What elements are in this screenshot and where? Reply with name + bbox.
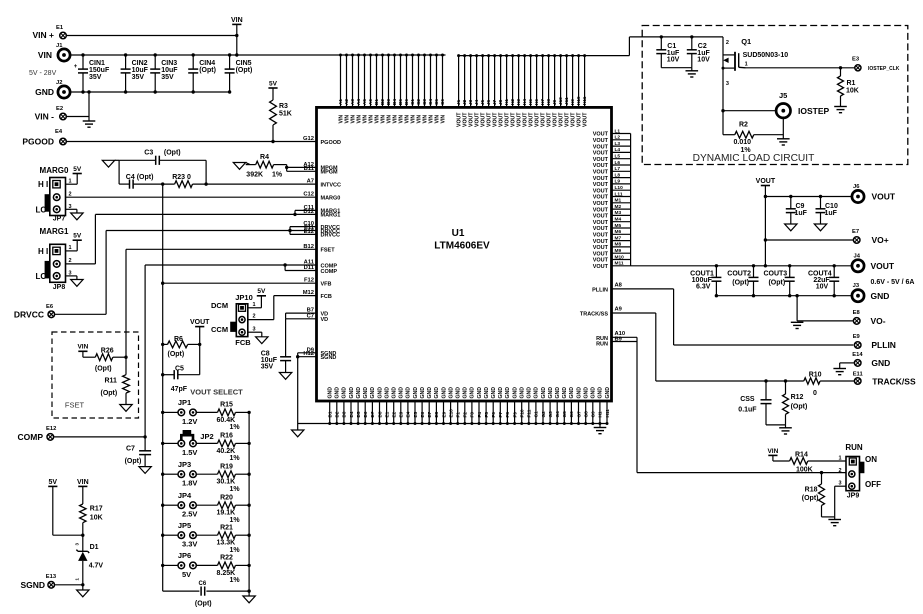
terminal E13 (SGND): [48, 582, 55, 589]
wire CSS/R12 ground: [766, 424, 786, 426]
wire PLLIN to E9: [673, 289, 675, 345]
svg-text:K8: K8: [546, 99, 551, 105]
svg-text:E8: E8: [434, 411, 439, 417]
ground (input): [83, 120, 96, 122]
svg-text:JP2: JP2: [200, 432, 213, 441]
svg-text:G8: G8: [584, 411, 589, 418]
svg-text:GND: GND: [335, 387, 341, 399]
svg-text:G2: G2: [541, 411, 546, 418]
svg-text:PGOOD: PGOOD: [22, 137, 54, 147]
svg-text:VOUT: VOUT: [593, 207, 609, 213]
svg-text:R22: R22: [220, 555, 233, 562]
svg-text:0.6V - 5V / 6A: 0.6V - 5V / 6A: [871, 279, 915, 286]
svg-text:VOUT: VOUT: [593, 233, 609, 239]
svg-text:D11: D11: [304, 265, 315, 271]
svg-text:C5: C5: [434, 99, 439, 105]
U1 pin RUN (A10,B9): [612, 336, 638, 338]
svg-text:(Opt): (Opt): [199, 67, 216, 74]
svg-text:GND: GND: [576, 387, 582, 399]
svg-text:GND: GND: [356, 387, 362, 399]
svg-text:GND: GND: [477, 387, 483, 399]
svg-text:LO: LO: [36, 272, 47, 281]
capacitor CSS 0.1uF: [764, 379, 767, 382]
ground (JP10 pin3): [248, 331, 262, 333]
ground (CSS/R12): [779, 427, 792, 429]
svg-text:5V - 28V: 5V - 28V: [29, 70, 57, 77]
banana jack J1 (VIN): [58, 49, 70, 61]
wire SGND drop to ground bus: [297, 357, 299, 424]
wire TRACK/SS to E11: [655, 313, 657, 381]
svg-text:R2: R2: [739, 122, 748, 129]
capacitor C3 (Opt): [119, 159, 156, 161]
svg-text:E8: E8: [853, 310, 861, 316]
svg-text:J8: J8: [498, 99, 503, 105]
svg-text:VIN: VIN: [77, 344, 88, 351]
svg-text:F2: F2: [463, 412, 468, 418]
resistor R4 392K 1%: [246, 164, 256, 166]
svg-text:E12: E12: [304, 229, 314, 235]
capacitor C2 1uF 10V: [690, 35, 693, 38]
svg-text:VO-: VO-: [871, 316, 886, 326]
svg-text:VOUT: VOUT: [593, 258, 609, 264]
svg-text:R21: R21: [220, 524, 233, 531]
svg-text:MARG0: MARG0: [321, 196, 341, 202]
svg-text:GND: GND: [498, 387, 504, 399]
svg-text:VIN: VIN: [767, 448, 778, 455]
svg-text:GND: GND: [512, 387, 518, 399]
svg-text:PGOOD: PGOOD: [321, 140, 342, 146]
svg-text:GND: GND: [520, 387, 526, 399]
svg-text:GND: GND: [491, 387, 497, 399]
svg-text:FSET: FSET: [65, 401, 85, 410]
svg-text:M5: M5: [615, 223, 622, 229]
wire VD bracket: [285, 313, 287, 319]
svg-text:10V: 10V: [697, 57, 710, 64]
wire C3 loop verticals: [118, 160, 120, 184]
capacitor CIN5: [229, 55, 231, 69]
wire feedback right rail: [248, 412, 250, 596]
svg-text:A3: A3: [350, 99, 355, 105]
svg-text:D5: D5: [356, 411, 361, 417]
terminal E9 (PLLIN): [854, 342, 861, 349]
svg-text:1: 1: [69, 245, 72, 251]
svg-text:JP1: JP1: [178, 398, 191, 407]
capacitor C9 1uF: [789, 195, 792, 198]
svg-text:5V: 5V: [257, 288, 266, 295]
svg-text:E2: E2: [392, 411, 397, 417]
svg-text:F1: F1: [456, 412, 461, 418]
svg-text:VIN: VIN: [231, 17, 243, 24]
jumper JP3 / resistor R19 30.1K 1%: [161, 473, 164, 476]
svg-text:J1: J1: [456, 99, 461, 105]
ground (bus right): [599, 424, 601, 428]
svg-text:C1: C1: [667, 43, 676, 50]
svg-text:(Opt): (Opt): [101, 390, 118, 397]
svg-text:U1: U1: [452, 228, 465, 239]
svg-text:60.4K: 60.4K: [217, 417, 236, 424]
svg-text:K6: K6: [534, 99, 539, 105]
svg-text:1%: 1%: [272, 172, 283, 179]
svg-text:L8: L8: [615, 172, 621, 178]
svg-text:GND: GND: [534, 387, 540, 399]
U1 top VIN pins: [340, 55, 342, 107]
wire PGOOD to U1 pin G12: [66, 141, 316, 143]
svg-text:J4: J4: [854, 254, 861, 260]
svg-text:GND: GND: [456, 387, 462, 399]
svg-text:K3: K3: [516, 99, 521, 105]
svg-text:VIN -: VIN -: [35, 112, 55, 122]
svg-text:GND: GND: [349, 387, 355, 399]
svg-text:A2: A2: [344, 99, 349, 105]
svg-text:GND: GND: [591, 387, 597, 399]
svg-text:COUT2: COUT2: [727, 271, 751, 278]
wire SGND bracket: [298, 352, 317, 354]
wire Q1 gate to E3: [746, 67, 855, 69]
svg-text:G5: G5: [562, 411, 567, 418]
ground (R1): [834, 106, 847, 108]
svg-text:C2: C2: [416, 99, 421, 105]
svg-text:13.3K: 13.3K: [217, 540, 236, 547]
svg-text:B9: B9: [615, 337, 623, 343]
svg-text:GND: GND: [427, 387, 433, 399]
wire E8 line: [795, 294, 798, 297]
svg-text:H12: H12: [303, 351, 314, 357]
svg-text:SGND: SGND: [20, 580, 45, 590]
terminal E8 (VO-): [853, 318, 860, 325]
svg-text:(Opt): (Opt): [236, 67, 253, 74]
power rail 5V (R3): [268, 87, 277, 89]
svg-text:E1: E1: [56, 25, 64, 31]
junction divider: [81, 534, 84, 537]
svg-text:GND: GND: [505, 387, 511, 399]
svg-text:47pF: 47pF: [171, 386, 188, 393]
resistor R14 100K: [790, 458, 808, 465]
svg-text:VOUT: VOUT: [593, 220, 609, 226]
svg-text:1%: 1%: [230, 517, 241, 524]
jumper JP2 / resistor R16 40.2K 1%: [161, 442, 164, 445]
wire VIN bus: [70, 54, 445, 56]
power rail VOUT (feedback): [195, 326, 204, 328]
svg-text:H I: H I: [38, 247, 48, 256]
svg-text:TRACK/SS: TRACK/SS: [872, 376, 916, 386]
svg-text:1uF: 1uF: [825, 210, 838, 217]
wire E13 to D1: [55, 584, 83, 586]
svg-text:VOUT: VOUT: [593, 226, 609, 232]
svg-text:GND: GND: [342, 387, 348, 399]
svg-text:40.2K: 40.2K: [217, 448, 236, 455]
svg-text:CIN4: CIN4: [199, 60, 215, 67]
svg-text:10K: 10K: [846, 88, 859, 95]
svg-text:JP6: JP6: [178, 551, 191, 560]
svg-text:GND: GND: [448, 387, 454, 399]
svg-text:0: 0: [813, 390, 817, 397]
wire MARG1 bracket: [294, 210, 296, 214]
svg-text:E7: E7: [427, 411, 432, 417]
svg-text:E3: E3: [852, 57, 860, 63]
svg-text:RUN: RUN: [845, 443, 863, 452]
svg-text:10V: 10V: [667, 57, 680, 64]
svg-text:19.1K: 19.1K: [217, 510, 236, 517]
junction C4/R23 to feedback rail: [161, 182, 164, 185]
svg-text:K11: K11: [582, 96, 587, 105]
U1 pin TRACK/SS (A9): [612, 312, 656, 314]
svg-text:L10: L10: [615, 185, 624, 191]
svg-text:1.5V: 1.5V: [182, 448, 197, 457]
power rail 5V (JP10): [257, 295, 266, 297]
svg-text:C6: C6: [440, 99, 445, 105]
ground (JP9): [828, 519, 841, 521]
svg-text:VOUT: VOUT: [593, 239, 609, 245]
svg-text:J2: J2: [462, 99, 467, 105]
svg-text:VOUT: VOUT: [593, 182, 609, 188]
svg-text:VIN +: VIN +: [33, 30, 55, 40]
svg-text:VOUT: VOUT: [593, 151, 609, 157]
svg-text:L2: L2: [615, 135, 621, 141]
capacitor CIN3: [154, 55, 156, 69]
resistor R17 10K: [82, 486, 84, 504]
svg-text:SUD50N03-10: SUD50N03-10: [743, 52, 789, 59]
svg-text:MARG1: MARG1: [40, 227, 69, 236]
svg-text:L6: L6: [615, 160, 621, 166]
ground (COUT bus): [791, 321, 804, 323]
svg-text:GND: GND: [541, 387, 547, 399]
capacitor C1 1uF 10V: [660, 35, 663, 38]
svg-text:JP9: JP9: [847, 493, 860, 500]
svg-text:G3: G3: [548, 411, 553, 418]
svg-text:J4: J4: [474, 99, 479, 105]
power rail VIN (R17): [78, 485, 87, 487]
zener diode D1 4.7V: [82, 535, 84, 551]
svg-text:392K: 392K: [246, 172, 263, 179]
jumper JP5 / resistor R21 13.3K 1%: [161, 534, 164, 537]
power rail 5V (D1): [48, 485, 57, 487]
svg-text:VOUT: VOUT: [593, 176, 609, 182]
svg-text:R14: R14: [795, 451, 808, 458]
svg-text:R4: R4: [260, 154, 269, 161]
svg-text:E4: E4: [406, 411, 411, 417]
svg-text:A6: A6: [368, 99, 373, 105]
svg-text:GND: GND: [548, 387, 554, 399]
svg-text:(Opt): (Opt): [164, 150, 181, 157]
svg-text:E1: E1: [384, 411, 389, 417]
power rail VIN (R14): [768, 454, 777, 456]
svg-text:VOUT: VOUT: [593, 138, 609, 144]
capacitor COUT3: [788, 264, 791, 267]
svg-text:E2: E2: [56, 106, 63, 112]
svg-text:CSS: CSS: [740, 396, 755, 403]
svg-text:VOUT: VOUT: [593, 144, 609, 150]
ground (JP8 pin3): [66, 275, 77, 277]
terminal E7 (VO+): [853, 237, 860, 244]
svg-text:1%: 1%: [741, 147, 752, 154]
svg-text:K10: K10: [576, 96, 581, 105]
svg-text:A8: A8: [615, 283, 623, 289]
svg-text:1: 1: [253, 302, 256, 308]
svg-text:L5: L5: [615, 154, 621, 160]
svg-text:1.8V: 1.8V: [182, 479, 197, 488]
terminal E14 (GND): [854, 360, 861, 367]
power rail VIN (FSET): [78, 350, 87, 352]
svg-text:B1: B1: [374, 99, 379, 105]
svg-text:IOSTEP_CLK: IOSTEP_CLK: [868, 66, 900, 72]
svg-text:(Opt): (Opt): [168, 351, 185, 358]
svg-text:L7: L7: [615, 166, 621, 172]
svg-text:5V: 5V: [182, 570, 191, 579]
svg-text:1%: 1%: [230, 455, 241, 462]
capacitor COUT2: [752, 264, 755, 267]
svg-text:E14: E14: [852, 352, 863, 358]
svg-text:GND: GND: [406, 387, 412, 399]
svg-text:VOUT: VOUT: [593, 201, 609, 207]
svg-text:10uF: 10uF: [161, 67, 178, 74]
svg-text:K7: K7: [540, 99, 545, 105]
svg-text:35V: 35V: [132, 74, 145, 81]
svg-text:4.7V: 4.7V: [89, 563, 104, 570]
svg-text:1%: 1%: [230, 486, 241, 493]
wire E2 to ground drop: [66, 116, 89, 118]
svg-text:J3: J3: [853, 283, 860, 289]
terminal E12 (COMP): [47, 434, 54, 441]
svg-text:10uF: 10uF: [132, 67, 149, 74]
svg-text:(Opt): (Opt): [768, 280, 785, 287]
svg-text:10V: 10V: [816, 284, 829, 291]
ground (R11): [120, 405, 132, 412]
U1 pin PLLIN (A8): [612, 288, 674, 290]
svg-text:M1: M1: [615, 198, 622, 204]
svg-text:OFF: OFF: [865, 480, 881, 489]
svg-text:+: +: [74, 64, 78, 70]
svg-text:FSET: FSET: [321, 248, 336, 254]
svg-text:G12: G12: [303, 136, 314, 142]
svg-text:E9: E9: [853, 334, 861, 340]
power rail VIN (top): [232, 23, 241, 25]
svg-text:R10: R10: [809, 371, 822, 378]
svg-text:C2: C2: [698, 43, 707, 50]
svg-text:1%: 1%: [230, 547, 241, 554]
svg-text:DCM: DCM: [211, 301, 228, 310]
svg-text:35V: 35V: [161, 74, 174, 81]
wire COUT ground bus: [716, 295, 851, 297]
svg-text:JP7: JP7: [53, 216, 66, 223]
svg-text:Q1: Q1: [741, 37, 751, 46]
ground (JP7 pin3): [66, 208, 77, 210]
svg-text:GND: GND: [569, 387, 575, 399]
svg-text:35V: 35V: [261, 364, 274, 371]
resistor R23 0: [175, 181, 193, 188]
svg-text:F4: F4: [477, 412, 482, 418]
svg-text:CIN5: CIN5: [236, 60, 252, 67]
ground (R4): [233, 163, 245, 170]
ground (C8): [279, 373, 291, 380]
resistor R6 (Opt): [161, 343, 164, 346]
svg-text:(Opt): (Opt): [802, 495, 819, 502]
svg-text:GND: GND: [555, 387, 561, 399]
power rail 5V (JP7): [73, 173, 82, 175]
svg-text:C5: C5: [175, 366, 184, 373]
svg-text:2.5V: 2.5V: [182, 510, 197, 519]
svg-text:GND: GND: [463, 387, 469, 399]
svg-text:E4: E4: [55, 129, 63, 135]
svg-text:D6: D6: [363, 411, 368, 417]
svg-text:G6: G6: [569, 411, 574, 418]
svg-text:LO: LO: [36, 206, 47, 215]
jumper JP1 / resistor R15 60.4K 1%: [161, 411, 164, 414]
svg-text:VOUT: VOUT: [190, 319, 210, 326]
svg-text:J5: J5: [480, 99, 485, 105]
svg-text:E5: E5: [413, 411, 418, 417]
svg-text:B12: B12: [303, 244, 314, 250]
svg-text:PLLIN: PLLIN: [592, 288, 608, 294]
resistor R26 (Opt): [95, 354, 113, 361]
svg-text:6.3V: 6.3V: [696, 284, 711, 291]
wire DRVCC to E6: [106, 230, 290, 232]
svg-text:VFB: VFB: [321, 282, 332, 288]
svg-text:VIN: VIN: [77, 479, 89, 486]
resistor R12 (Opt): [784, 379, 787, 382]
svg-text:D1: D1: [90, 544, 99, 551]
wire E1 to VIN rail: [66, 35, 237, 37]
svg-text:VOUT: VOUT: [593, 163, 609, 169]
wire VOUT ladder bus: [630, 134, 632, 266]
svg-text:IOSTEP: IOSTEP: [798, 106, 830, 116]
svg-text:J2: J2: [56, 80, 62, 86]
svg-text:J11: J11: [564, 97, 569, 105]
wire MPGM bracket: [286, 165, 288, 172]
ground (bus left): [297, 424, 299, 431]
svg-text:MPGM: MPGM: [321, 170, 339, 176]
svg-text:E6: E6: [420, 411, 425, 417]
svg-text:M7: M7: [615, 235, 622, 241]
capacitor CIN1: [82, 55, 84, 69]
wire feedback bottom rail: [163, 590, 200, 592]
wire DRVCC bracket: [289, 227, 291, 235]
svg-text:0.1uF: 0.1uF: [738, 406, 757, 413]
wire VOUT bus to J4: [631, 265, 852, 267]
svg-text:J6: J6: [486, 99, 491, 105]
svg-text:R6: R6: [174, 336, 183, 343]
svg-text:D7: D7: [370, 411, 375, 417]
svg-text:VOUT: VOUT: [593, 214, 609, 220]
connector J5 (IOSTEP): [776, 104, 790, 118]
svg-text:A1: A1: [338, 99, 343, 105]
svg-text:GND: GND: [470, 387, 476, 399]
wire COMP bracket: [284, 265, 286, 271]
svg-text:(Opt): (Opt): [791, 404, 808, 411]
svg-text:1: 1: [838, 456, 841, 462]
banana jack J2 (GND): [58, 86, 70, 98]
svg-text:D12: D12: [303, 209, 314, 215]
dynamic load dashed box: [642, 26, 908, 165]
svg-text:MARG1: MARG1: [321, 213, 341, 219]
capacitor CIN4: [192, 55, 194, 69]
svg-text:E9: E9: [441, 411, 446, 417]
svg-text:150uF: 150uF: [89, 67, 110, 74]
svg-text:1: 1: [745, 62, 748, 68]
ground (C10): [814, 224, 826, 231]
wire JP8 pin2 to U1 MARG1: [66, 263, 96, 265]
svg-text:GND: GND: [605, 387, 611, 399]
svg-text:(Opt): (Opt): [732, 280, 749, 287]
svg-text:R3: R3: [279, 103, 288, 110]
svg-text:1.2V: 1.2V: [182, 417, 197, 426]
svg-text:5V: 5V: [73, 166, 82, 173]
svg-text:B4: B4: [392, 99, 397, 105]
svg-text:FCB: FCB: [235, 338, 251, 347]
capacitor CIN2: [125, 55, 127, 69]
svg-text:M4: M4: [615, 217, 622, 223]
svg-text:8.25K: 8.25K: [217, 570, 236, 577]
connector J4 (VOUT): [852, 260, 864, 272]
